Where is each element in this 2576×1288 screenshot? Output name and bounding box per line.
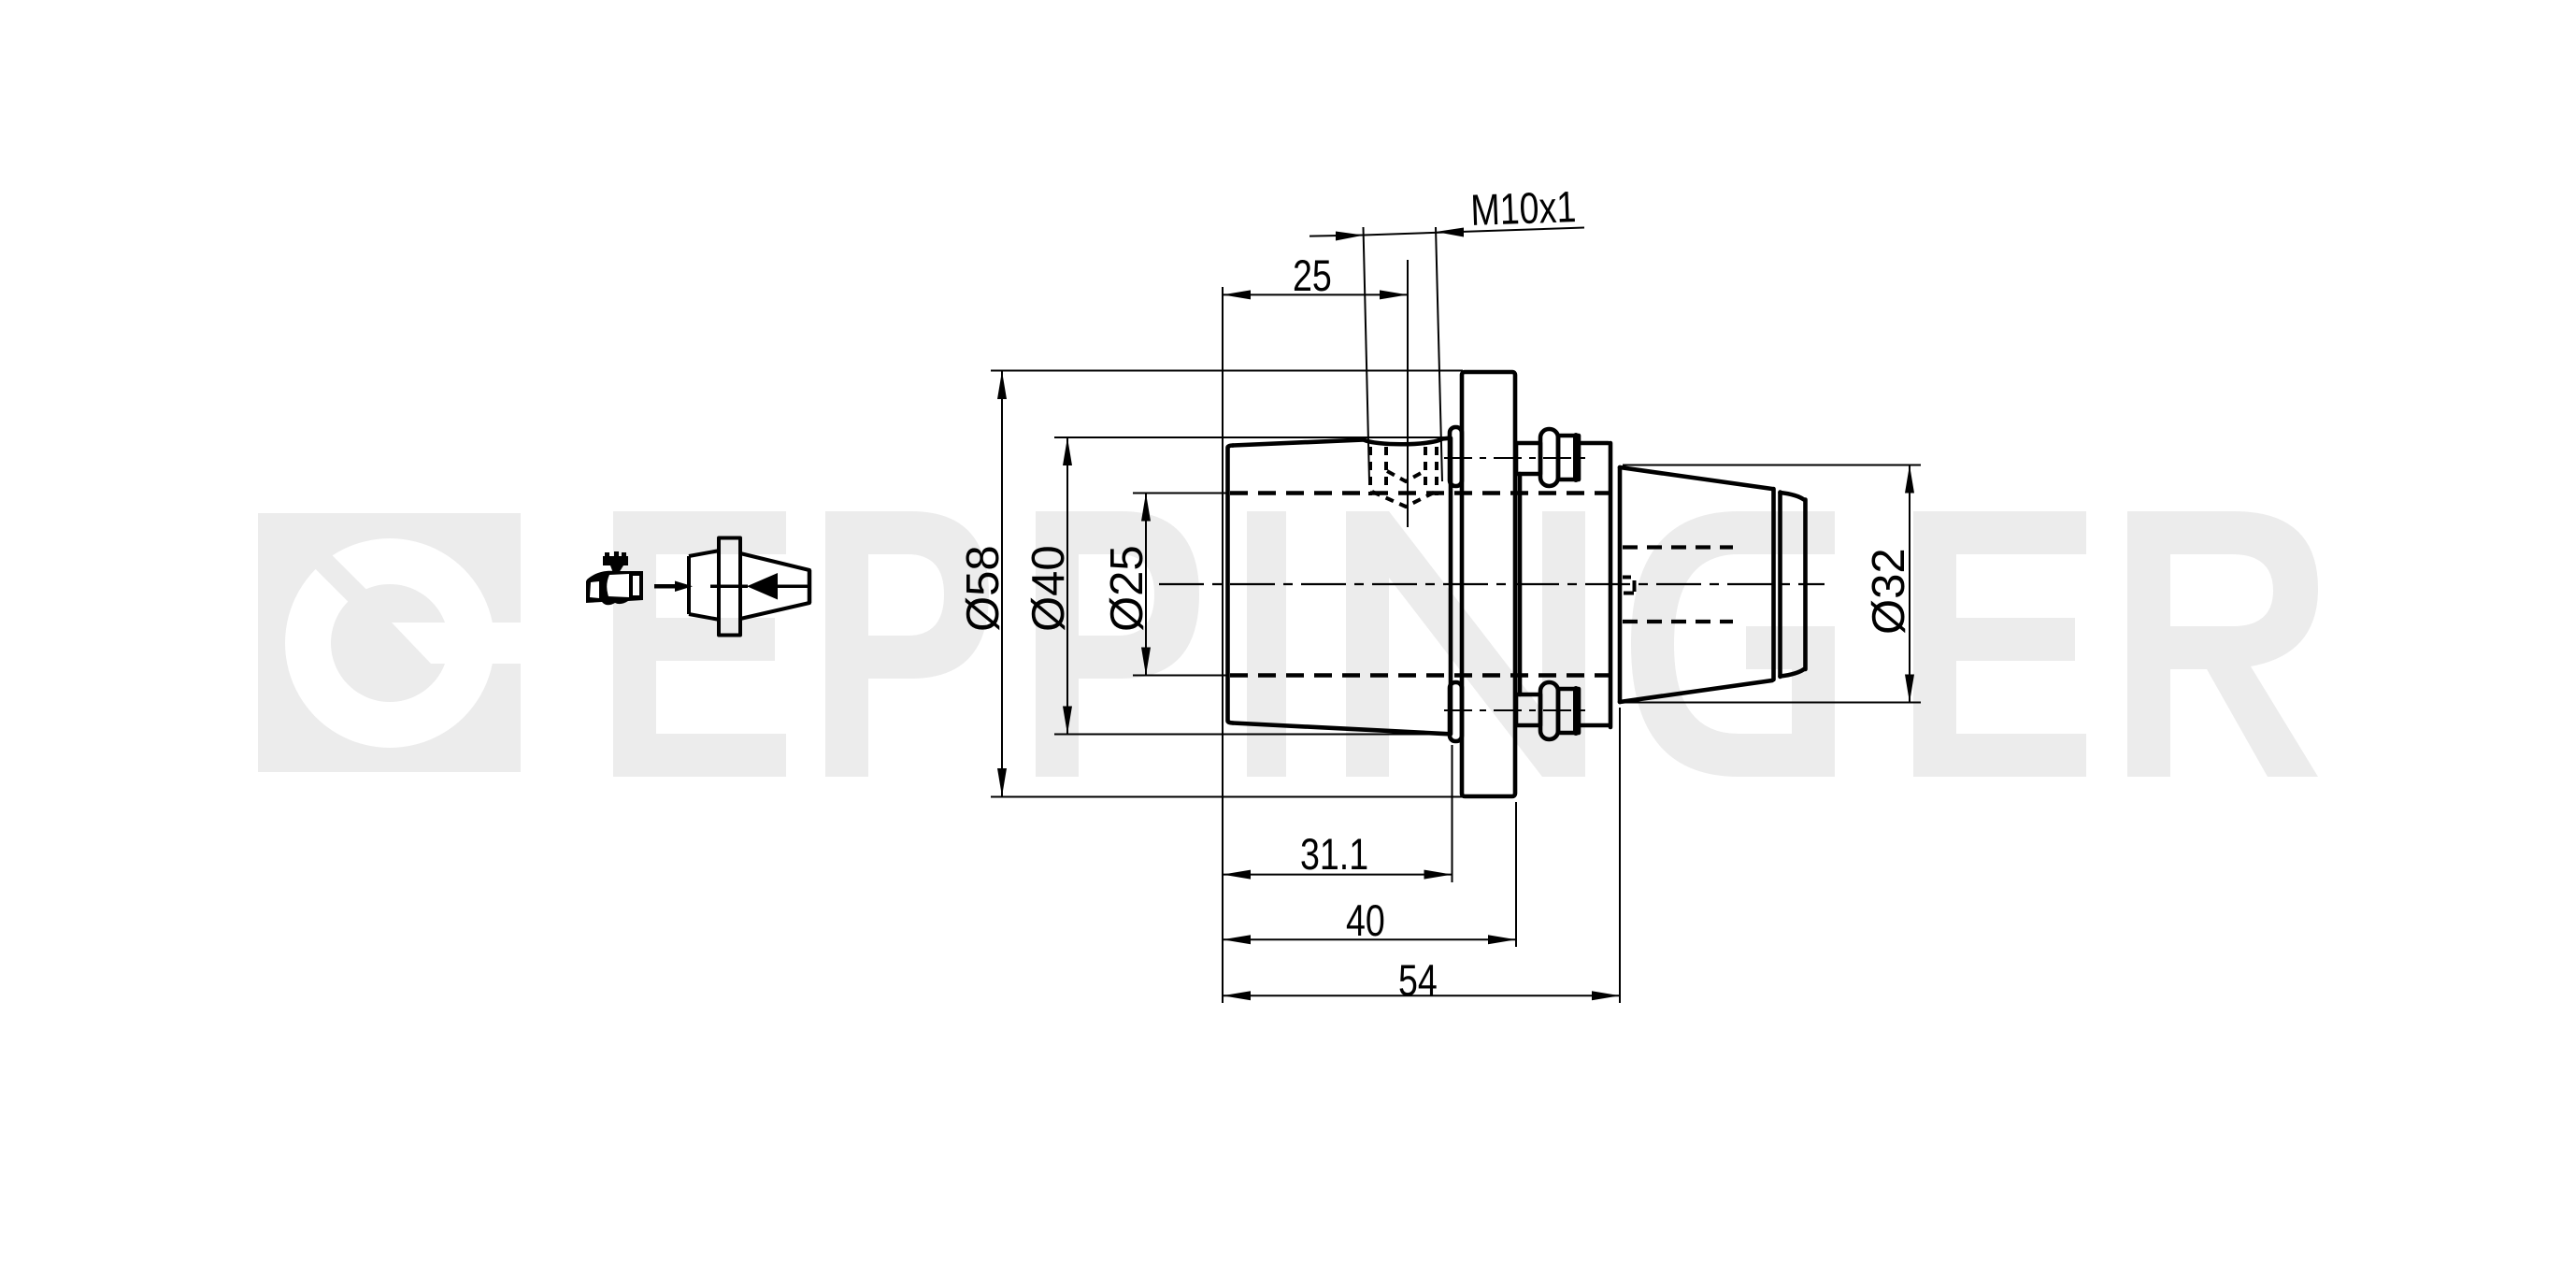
- svg-text:M10x1: M10x1: [1470, 182, 1578, 236]
- svg-text:Ø25: Ø25: [1102, 545, 1152, 632]
- svg-text:Ø58: Ø58: [958, 545, 1009, 632]
- svg-text:40: 40: [1346, 896, 1385, 946]
- svg-text:Ø32: Ø32: [1864, 548, 1914, 635]
- svg-text:Ø40: Ø40: [1023, 545, 1074, 632]
- svg-text:54: 54: [1398, 956, 1438, 1006]
- svg-text:31.1: 31.1: [1300, 830, 1368, 880]
- svg-text:25: 25: [1293, 251, 1332, 301]
